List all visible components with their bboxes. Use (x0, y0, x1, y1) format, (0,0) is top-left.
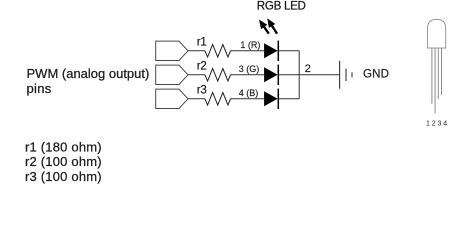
wire LED2 to bus (278, 74, 299, 76)
svg-text:1 (R): 1 (R) (240, 40, 260, 50)
LED D2 cathode bar (277, 65, 279, 85)
LED D3 cathode bar (277, 89, 279, 109)
pin connector P3 (156, 89, 188, 108)
pin connector P1 (156, 41, 188, 60)
svg-text:2: 2 (305, 63, 311, 75)
svg-text:r2 (100 ohm): r2 (100 ohm) (25, 154, 102, 169)
svg-text:RGB LED: RGB LED (257, 0, 306, 13)
wire r2 to LED2 (231, 74, 265, 76)
light emission arrow 2 (267, 18, 278, 34)
LED leg 3 (437, 48, 439, 99)
wire LED3 to bus (278, 98, 299, 100)
svg-text:r3 (100 ohm): r3 (100 ohm) (25, 169, 102, 184)
LED leg 1 (431, 48, 433, 104)
LED leg 2 (434, 48, 436, 113)
svg-text:4 (B): 4 (B) (239, 88, 259, 98)
LED D3 blue anode triangle (264, 91, 278, 106)
resistor r1 (205, 45, 231, 58)
pin connector P2 (156, 65, 188, 84)
svg-text:pins: pins (27, 81, 52, 96)
wire r3 to LED3 (231, 98, 265, 100)
svg-text:r1 (180 ohm): r1 (180 ohm) (25, 140, 102, 155)
svg-text:1 2 3 4: 1 2 3 4 (426, 120, 447, 127)
wire pin2 to r2 (188, 74, 205, 76)
LED D1 red anode triangle (264, 43, 278, 58)
physical LED body (428, 19, 446, 48)
svg-text:r2: r2 (197, 61, 207, 73)
svg-text:r1: r1 (197, 37, 207, 49)
cathode bus wire (298, 51, 300, 99)
svg-text:PWM (analog output): PWM (analog output) (27, 66, 150, 81)
svg-text:r3: r3 (197, 85, 207, 97)
wire pin1 to r1 (188, 50, 205, 52)
LED leg 4 (441, 48, 443, 95)
ground symbol (340, 61, 352, 89)
svg-text:3 (G): 3 (G) (239, 64, 260, 74)
wire r1 to LED1 (231, 50, 265, 52)
resistor r2 (205, 69, 231, 82)
wire pin2 cathode to ground (299, 74, 339, 76)
wire LED1 to bus (278, 50, 299, 52)
wire pin3 to r3 (188, 98, 205, 100)
LED D1 cathode bar (277, 41, 279, 61)
LED D2 green anode triangle (264, 67, 278, 82)
resistor r3 (205, 93, 231, 106)
svg-text:GND: GND (363, 69, 389, 81)
light emission arrow 1 (259, 20, 270, 35)
